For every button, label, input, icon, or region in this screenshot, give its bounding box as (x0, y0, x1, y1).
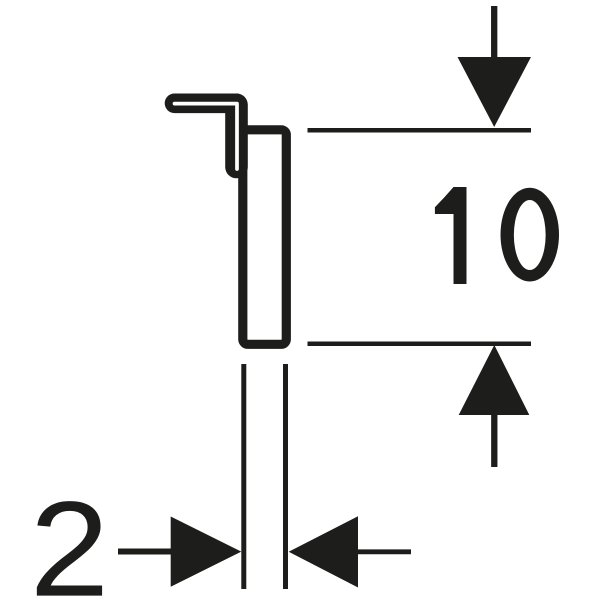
svg-text:2: 2 (30, 473, 110, 600)
